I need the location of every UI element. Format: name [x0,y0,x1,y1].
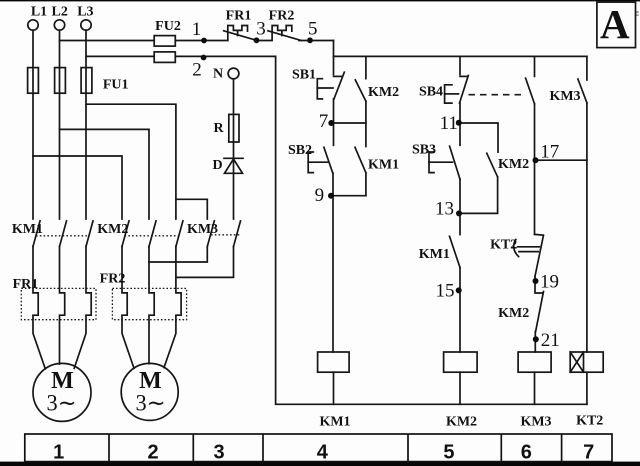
svg-text:3∼: 3∼ [136,391,166,416]
svg-text:KM2: KM2 [368,85,399,100]
svg-text:6: 6 [521,442,532,464]
svg-text:FR2: FR2 [269,9,295,24]
svg-text:FR1: FR1 [226,9,252,24]
svg-text:KM1: KM1 [368,157,399,172]
svg-text:19: 19 [540,272,559,293]
svg-text:5: 5 [443,442,454,464]
svg-text:2: 2 [192,60,202,81]
svg-text:SB1: SB1 [292,68,316,83]
svg-text:A: A [600,1,630,47]
svg-text:L3: L3 [77,5,93,20]
svg-text:3∼: 3∼ [47,391,77,416]
svg-text:9: 9 [315,185,325,206]
svg-text:1: 1 [192,19,202,40]
svg-text:KM3: KM3 [520,415,551,430]
svg-text:SB3: SB3 [412,143,436,158]
svg-text:FU1: FU1 [103,78,129,93]
svg-text:15: 15 [436,281,455,302]
svg-text:FR1: FR1 [13,277,39,292]
svg-text:SB4: SB4 [419,85,443,100]
svg-text:FR2: FR2 [100,272,126,287]
svg-text:D: D [212,158,222,173]
svg-text:21: 21 [541,330,560,351]
svg-text:7: 7 [583,442,594,464]
svg-text:KM1: KM1 [319,415,350,430]
svg-text:R: R [213,121,224,136]
svg-text:7: 7 [319,111,329,132]
svg-text:L1: L1 [31,5,47,20]
svg-text:KM3: KM3 [187,222,218,237]
svg-text:1: 1 [53,442,64,464]
svg-text:3: 3 [256,19,266,40]
svg-text:17: 17 [540,142,559,163]
svg-text:кд: кд [634,11,640,17]
svg-text:3: 3 [213,442,224,464]
svg-text:KM3: KM3 [549,89,580,104]
svg-text:KT2: KT2 [576,414,603,429]
svg-text:11: 11 [440,113,458,134]
svg-text:KM2: KM2 [498,157,529,172]
svg-text:SB2: SB2 [288,143,312,158]
svg-text:KM1: KM1 [419,247,450,262]
svg-text:KM2: KM2 [97,222,128,237]
svg-text:5: 5 [308,19,318,40]
svg-text:2: 2 [147,442,158,464]
svg-text:KM2: KM2 [446,415,477,430]
svg-text:KT2: KT2 [490,238,517,253]
svg-text:4: 4 [317,442,329,464]
svg-text:13: 13 [435,199,454,220]
svg-text:KM2: KM2 [498,306,529,321]
svg-text:KM1: KM1 [12,222,43,237]
svg-text:FU2: FU2 [155,19,181,34]
svg-text:L2: L2 [52,5,68,20]
svg-text:N: N [213,67,223,82]
